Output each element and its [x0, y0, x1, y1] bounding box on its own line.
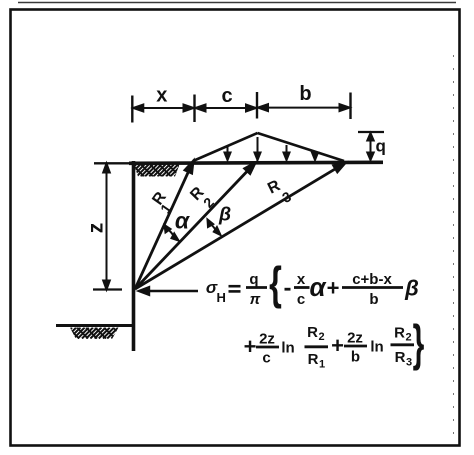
- svg-text:3: 3: [406, 357, 412, 369]
- svg-text:R: R: [394, 325, 405, 342]
- svg-text:β: β: [404, 276, 419, 301]
- svg-text:}: }: [413, 315, 425, 371]
- angle beta arc: [208, 220, 221, 236]
- wall: [132, 161, 136, 351]
- ray R2: [135, 163, 255, 289]
- svg-text:b: b: [299, 83, 311, 105]
- scan artifact top line: [18, 2, 456, 4]
- svg-text:b: b: [369, 291, 378, 308]
- svg-text:ln: ln: [370, 339, 383, 356]
- svg-text:q: q: [376, 137, 386, 156]
- dimension c arrow line: [196, 105, 257, 112]
- lower ground line: [56, 324, 133, 327]
- svg-text:α: α: [309, 272, 327, 302]
- formula line 2: + 2z/c ln R2/R1 + 2z/b ln R2/R3 }: [244, 315, 425, 371]
- tick b-right: [349, 93, 351, 120]
- svg-text:+: +: [327, 276, 340, 301]
- q dimension arrows: [367, 133, 373, 160]
- label R1: [149, 189, 174, 217]
- q dimension top tick: [358, 131, 384, 133]
- svg-text:R: R: [395, 349, 406, 366]
- svg-text:1: 1: [319, 359, 325, 371]
- ground surface line: [129, 162, 383, 163]
- svg-text:c+b-x: c+b-x: [352, 271, 392, 288]
- label R2: [187, 184, 217, 211]
- scan artifact right dotted line: [453, 55, 455, 435]
- svg-text:π: π: [250, 291, 261, 308]
- z top tick: [94, 162, 129, 164]
- svg-text:2z: 2z: [347, 330, 363, 347]
- upper ground hatch: [124, 165, 191, 177]
- label z: [84, 223, 107, 234]
- dimension x arrow line: [133, 105, 193, 112]
- triangular load right slope: [258, 133, 345, 161]
- load arrow 4: [312, 153, 318, 161]
- svg-text:c: c: [221, 85, 232, 107]
- tick x/c: [193, 95, 195, 123]
- formula line 1: sigma_H = q/pi { - x/c a + (c+b-x)/b B: [206, 259, 419, 310]
- lower ground hatch: [61, 328, 127, 339]
- svg-text:c: c: [262, 350, 270, 367]
- tick x-left: [131, 96, 133, 123]
- label R3: [265, 177, 294, 206]
- ray R1: [135, 162, 193, 290]
- svg-text:x: x: [297, 271, 306, 288]
- z dimension line: [103, 164, 110, 290]
- svg-text:+: +: [331, 333, 344, 358]
- triangular load left slope: [193, 133, 258, 161]
- sigma-H arrow at wall base: [139, 287, 198, 295]
- svg-text:β: β: [218, 204, 231, 226]
- svg-text:x: x: [156, 85, 167, 107]
- svg-text:{: {: [269, 259, 282, 310]
- load arrow 3: [284, 145, 290, 160]
- svg-text:H: H: [217, 290, 226, 305]
- svg-text:+: +: [244, 334, 257, 359]
- angle alpha arc: [165, 225, 179, 241]
- svg-text:ln: ln: [281, 340, 294, 357]
- svg-text:2z: 2z: [259, 331, 275, 348]
- ray R3: [135, 163, 345, 289]
- svg-text:2: 2: [406, 332, 412, 344]
- minus: [285, 288, 291, 291]
- load arrow 1: [225, 147, 231, 160]
- svg-text:R: R: [307, 324, 318, 341]
- svg-text:c: c: [297, 291, 305, 308]
- svg-text:z: z: [84, 223, 107, 234]
- z bottom tick: [93, 288, 122, 290]
- svg-text:2: 2: [319, 331, 325, 343]
- dimension b arrow line: [258, 104, 350, 111]
- svg-text:b: b: [351, 349, 360, 366]
- svg-text:R: R: [308, 351, 319, 368]
- svg-text:q: q: [249, 271, 258, 288]
- load arrow 2: [255, 137, 261, 160]
- equals: [229, 285, 241, 288]
- tick c/b: [256, 92, 258, 119]
- svg-text:α: α: [175, 208, 191, 234]
